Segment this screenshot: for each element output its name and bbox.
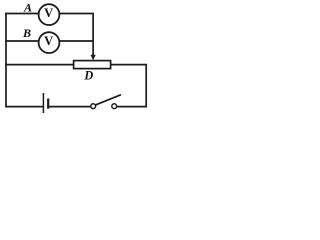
svg-text:D: D	[83, 69, 93, 83]
wire right rail	[145, 64, 147, 108]
wire row B right (voltmeter B to wiper vertical)	[54, 40, 93, 42]
voltmeter A	[39, 4, 60, 25]
svg-text:B: B	[22, 26, 31, 40]
wire wiper vertical	[92, 13, 94, 56]
voltmeter B	[39, 32, 60, 53]
rheostat wiper arrowhead	[91, 55, 96, 61]
wire middle right (rheostat to right rail)	[110, 64, 146, 66]
wire top (node to voltmeter A)	[5, 13, 44, 15]
switch blade	[96, 95, 121, 105]
wire left rail	[5, 13, 7, 107]
wire bottom left (rail to battery)	[5, 106, 43, 108]
wire row B left	[5, 40, 44, 42]
switch left contact	[91, 104, 96, 109]
svg-text:V: V	[44, 6, 53, 20]
switch right contact	[112, 104, 117, 109]
battery short thick plate	[47, 99, 49, 109]
svg-text:A: A	[23, 1, 32, 15]
battery long plate	[42, 93, 44, 113]
wire top right (voltmeter A to wiper)	[54, 13, 93, 15]
wire bottom middle (battery to switch)	[48, 106, 91, 108]
wire bottom right (switch to rail)	[116, 106, 147, 108]
rheostat D body	[74, 61, 111, 69]
svg-text:V: V	[44, 34, 53, 48]
wire middle left (rail to rheostat)	[5, 64, 75, 66]
